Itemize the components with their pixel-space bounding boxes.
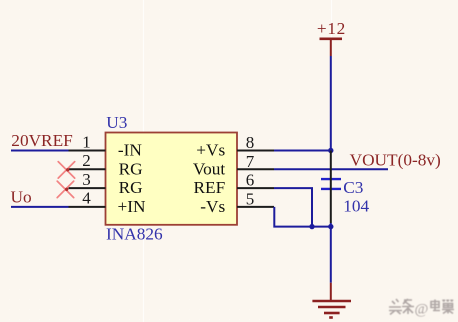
svg-text:104: 104 [343,197,369,216]
svg-text:-IN: -IN [118,141,143,160]
svg-text:-Vs: -Vs [200,197,225,216]
svg-text:RG: RG [119,178,143,197]
svg-text:1: 1 [82,132,91,151]
svg-text:Vout: Vout [193,159,226,178]
svg-text:+IN: +IN [118,197,147,216]
svg-text:U3: U3 [106,113,127,132]
svg-text:+Vs: +Vs [196,141,225,160]
svg-text:C3: C3 [343,178,363,197]
svg-text:7: 7 [246,152,255,171]
svg-text:6: 6 [246,171,255,190]
svg-text:5: 5 [246,189,255,208]
svg-text:2: 2 [82,151,91,170]
svg-text:RG: RG [119,159,143,178]
svg-text:@: @ [415,302,429,318]
svg-text:4: 4 [82,189,91,208]
svg-text:20VREF: 20VREF [11,131,72,150]
svg-text:+12: +12 [317,19,346,38]
svg-text:3: 3 [82,170,91,189]
svg-text:INA826: INA826 [106,225,163,244]
svg-text:Uo: Uo [11,187,32,206]
svg-text:8: 8 [246,133,255,152]
svg-text:REF: REF [193,178,225,197]
svg-text:VOUT(0-8v): VOUT(0-8v) [350,150,441,169]
